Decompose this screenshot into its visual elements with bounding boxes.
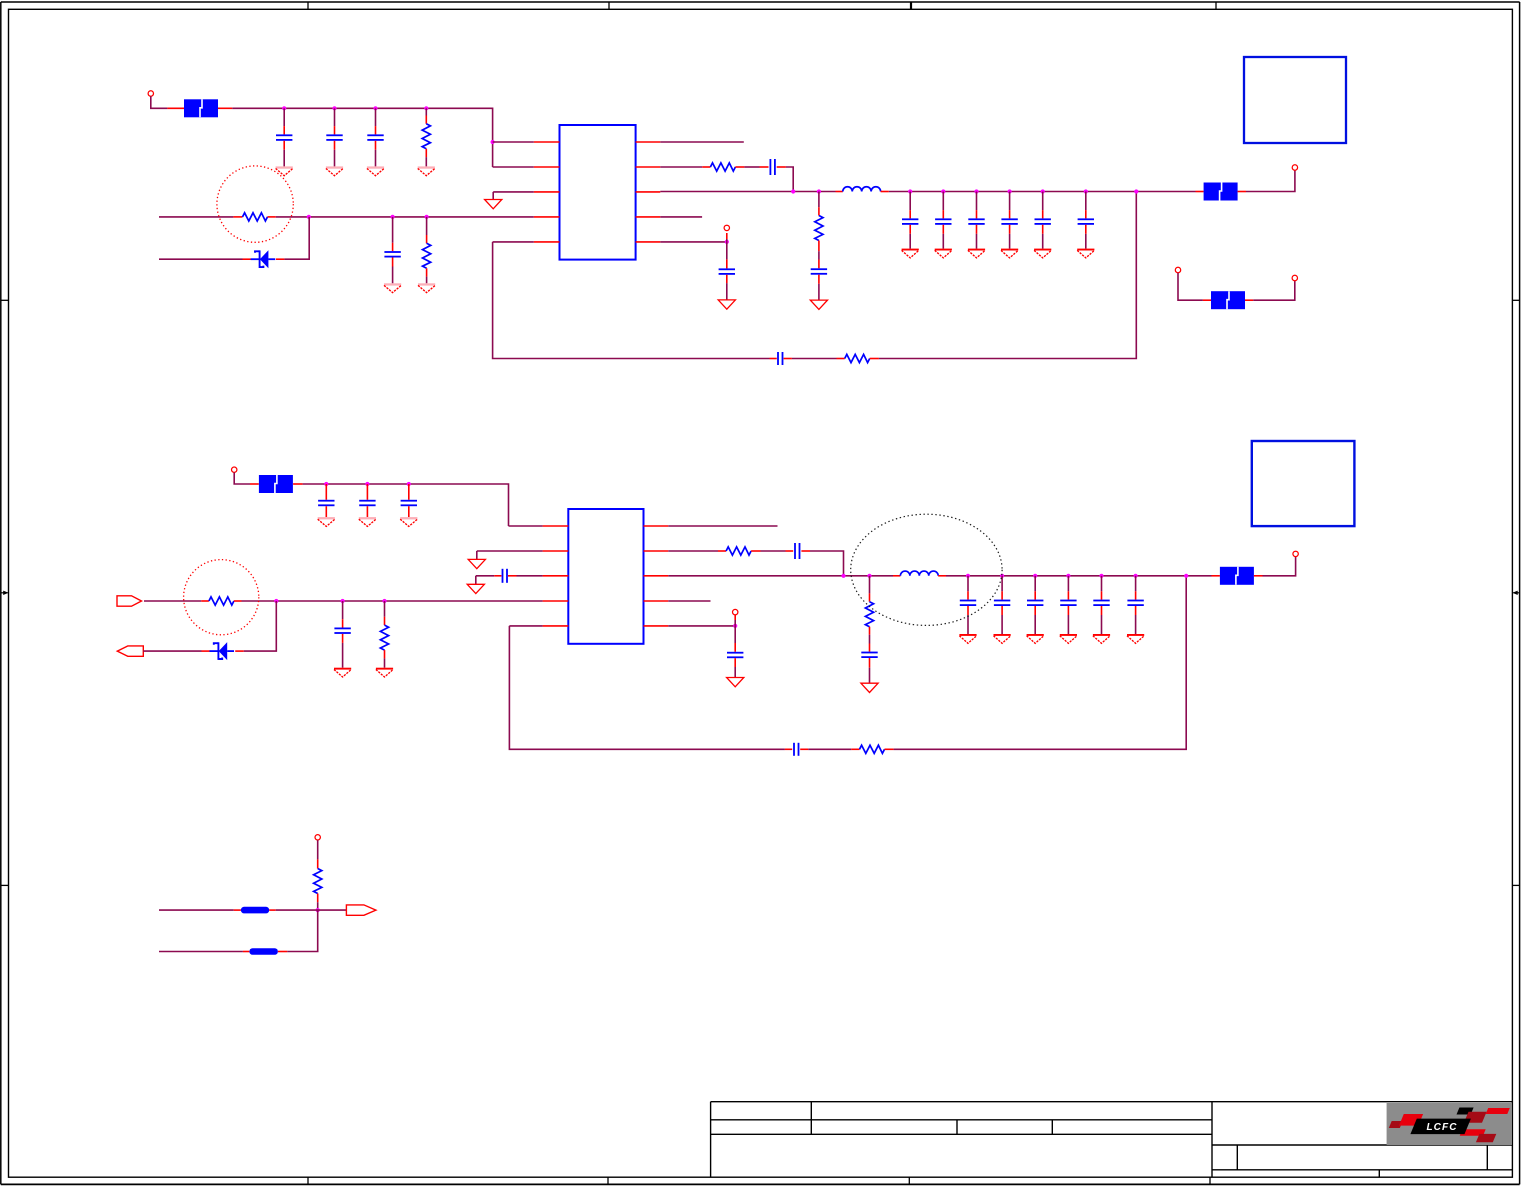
svg-text:LCFC: LCFC (1426, 1122, 1457, 1133)
